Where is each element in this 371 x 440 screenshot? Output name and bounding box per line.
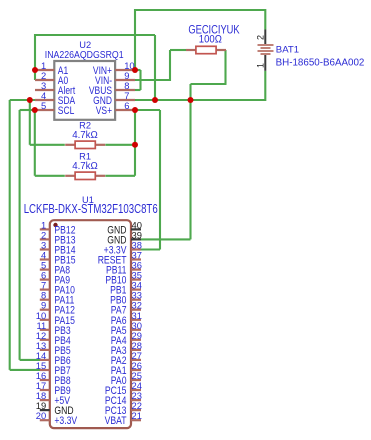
svg-text:20: 20 <box>36 410 46 421</box>
svg-text:BAT1: BAT1 <box>276 44 299 55</box>
svg-text:VBAT: VBAT <box>105 415 127 427</box>
svg-text:4.7kΩ: 4.7kΩ <box>72 161 98 172</box>
svg-text:6: 6 <box>124 100 129 111</box>
svg-text:LCKFB-DKX-STM32F103C8T6: LCKFB-DKX-STM32F103C8T6 <box>24 202 158 216</box>
svg-text:1: 1 <box>256 63 266 68</box>
svg-text:2: 2 <box>256 35 266 40</box>
svg-text:100Ω: 100Ω <box>199 34 222 46</box>
svg-text:SCL: SCL <box>58 105 75 117</box>
svg-text:R1: R1 <box>79 151 91 161</box>
svg-text:VS+: VS+ <box>96 105 112 117</box>
svg-text:INA226AQDGSRQ1: INA226AQDGSRQ1 <box>45 50 124 61</box>
svg-text:R2: R2 <box>79 120 91 130</box>
svg-text:21: 21 <box>132 410 142 421</box>
svg-text:BH-18650-B6AA002: BH-18650-B6AA002 <box>276 57 365 68</box>
svg-text:U2: U2 <box>79 40 91 50</box>
svg-text:+3.3V: +3.3V <box>54 415 77 427</box>
svg-text:5: 5 <box>41 100 46 111</box>
svg-text:4.7kΩ: 4.7kΩ <box>72 130 98 141</box>
